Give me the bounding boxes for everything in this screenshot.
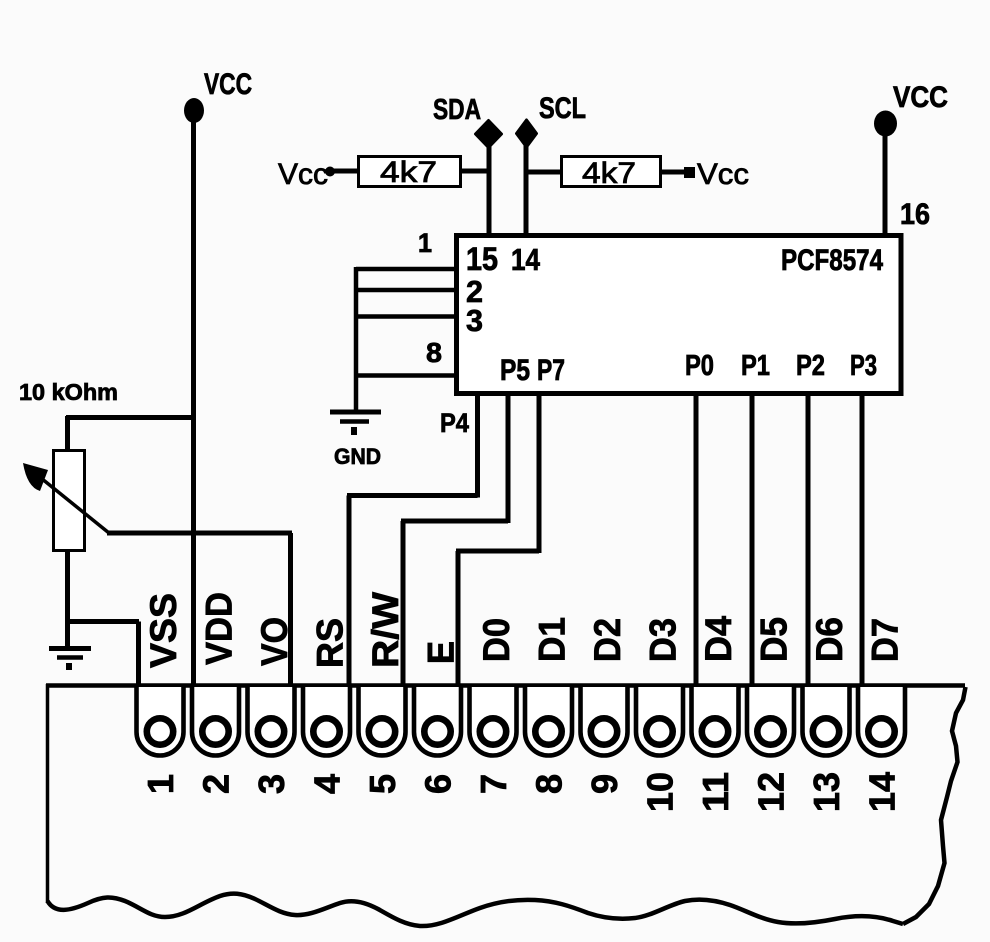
LCD module left edge <box>46 684 50 903</box>
ground GND (address pins) bar2 <box>340 419 369 424</box>
wire VCC top-left vertical down to LCD pin 2 (VDD) <box>191 120 196 686</box>
LCD pin 3 socket outline <box>248 687 295 755</box>
svg-text:1: 1 <box>140 774 181 794</box>
svg-text:VCC: VCC <box>893 81 948 114</box>
svg-text:1: 1 <box>418 228 432 258</box>
svg-text:14: 14 <box>862 772 903 812</box>
svg-text:VO: VO <box>254 617 295 666</box>
svg-text:4k7: 4k7 <box>582 157 636 190</box>
wire pin2 stub (A1) <box>356 288 456 293</box>
wire P4 horizontal to RS <box>347 493 478 498</box>
wire RS vertical down to LCD pin 4 <box>347 496 352 687</box>
svg-text:P4: P4 <box>440 408 469 438</box>
wire P5 horizontal to R/W <box>401 519 508 524</box>
LCD pin 3 hole <box>258 718 284 744</box>
svg-text:P7: P7 <box>537 354 565 387</box>
svg-text:R/W: R/W <box>365 592 406 668</box>
svg-text:PCF8574: PCF8574 <box>781 244 883 277</box>
wire pot bottom vertical to ground <box>65 550 70 648</box>
svg-text:Vcc: Vcc <box>697 158 749 191</box>
LCD pin 6 hole <box>424 718 450 744</box>
svg-text:Vcc: Vcc <box>278 158 328 191</box>
svg-text:P5: P5 <box>500 354 530 387</box>
node VCC (top right supply dot) <box>874 111 897 137</box>
svg-text:15: 15 <box>466 241 498 277</box>
potentiometer wiper arrow shaft <box>36 474 109 533</box>
wire pin8 stub (VSS) <box>356 373 456 378</box>
svg-text:5: 5 <box>362 774 403 794</box>
svg-text:D1: D1 <box>532 617 573 662</box>
LCD pin 11 socket outline <box>692 687 739 755</box>
svg-text:8: 8 <box>529 774 570 794</box>
LCD pin 1 socket outline <box>137 687 184 755</box>
svg-text:10: 10 <box>640 772 681 812</box>
LCD module torn bottom edge (wavy) <box>48 894 904 926</box>
LCD pin 12 hole <box>757 718 783 744</box>
svg-text:10 kOhm: 10 kOhm <box>19 379 118 405</box>
svg-text:VSS: VSS <box>143 593 184 668</box>
svg-text:D7: D7 <box>865 618 906 662</box>
wire P2 vertical down to LCD pin 13 (D6) <box>806 394 811 686</box>
wire wiper horizontal to VO line <box>107 531 292 536</box>
svg-text:D3: D3 <box>643 618 684 662</box>
wire pot bottom branch horizontal to LCD pin 1 <box>66 619 139 624</box>
svg-text:E: E <box>421 641 462 664</box>
svg-text:P2: P2 <box>796 350 825 382</box>
svg-text:RS: RS <box>310 618 351 668</box>
svg-text:6: 6 <box>418 774 459 794</box>
LCD pin 7 socket outline <box>470 687 517 755</box>
wire P0 vertical down to LCD pin 11 (D4) <box>694 394 699 686</box>
LCD pin 2 socket outline <box>192 687 239 755</box>
wire P7 vertical from U1 <box>537 394 542 553</box>
wire address bus vertical to ground <box>354 267 359 412</box>
wire P4 vertical from U1 <box>475 394 480 498</box>
svg-text:D2: D2 <box>587 618 628 662</box>
wire Vcc dot to resistor R1 <box>334 169 359 174</box>
svg-text:2: 2 <box>196 774 237 794</box>
wire SCL vertical down to PCF8574 pin 14 <box>524 140 529 237</box>
LCD pin 7 hole <box>480 718 506 744</box>
wire VO vertical down to LCD pin 3 <box>288 533 293 686</box>
LCD module torn right edge (jagged) <box>903 687 966 924</box>
svg-text:D5: D5 <box>754 617 795 662</box>
wire R1 to SDA line <box>460 169 489 174</box>
LCD pin 10 hole <box>646 718 672 744</box>
LCD pin 12 socket outline <box>747 687 794 755</box>
LCD pin 13 hole <box>813 718 839 744</box>
svg-text:14: 14 <box>511 242 541 277</box>
node SCL (diamond) <box>517 120 537 147</box>
svg-text:VDD: VDD <box>199 592 240 665</box>
LCD pin 2 hole <box>202 718 228 744</box>
ground (pot) bar1 <box>49 646 91 651</box>
node SDA (diamond) <box>476 121 502 148</box>
wire P3 vertical down to LCD pin 14 (D7) <box>860 394 865 686</box>
svg-text:3: 3 <box>466 303 483 338</box>
wire R2 to Vcc arrow <box>660 170 686 175</box>
LCD pin 9 hole <box>591 718 617 744</box>
svg-text:P3: P3 <box>850 350 877 382</box>
op IC U1 PCF8574 body <box>457 236 902 394</box>
svg-text:GND: GND <box>334 444 381 469</box>
wire P1 vertical down to LCD pin 12 (D5) <box>750 394 755 686</box>
svg-text:7: 7 <box>473 774 514 794</box>
wire SDA vertical down to PCF8574 pin 15 <box>487 140 492 237</box>
ground GND (address pins) bar1 <box>330 410 381 415</box>
LCD pin 10 socket outline <box>636 687 683 755</box>
ground (pot) bar2 <box>57 655 83 660</box>
ground GND (address pins) bar3 <box>351 427 357 435</box>
ground (pot) bar3 <box>66 663 72 670</box>
wire VCC top-right vertical down to PCF8574 pin 16 <box>883 133 888 237</box>
svg-text:P0: P0 <box>685 350 714 382</box>
node square terminal before Vcc (right) <box>684 167 695 178</box>
LCD pin 8 socket outline <box>525 687 572 755</box>
svg-text:8: 8 <box>426 337 442 368</box>
svg-text:D6: D6 <box>809 617 850 662</box>
LCD pin 13 socket outline <box>803 687 850 755</box>
LCD pin 14 hole <box>868 718 894 744</box>
resistor R2 4k7 pull-up (SCL) body <box>562 157 661 187</box>
node VCC (top left supply dot) <box>184 98 204 123</box>
wire pot top vertical <box>65 416 70 451</box>
svg-text:D4: D4 <box>698 616 739 662</box>
LCD pin 9 socket outline <box>581 687 628 755</box>
node dot after Vcc label <box>325 167 335 177</box>
svg-text:12: 12 <box>751 772 792 812</box>
wire pot top to VCC line <box>66 415 195 420</box>
wire P7 horizontal to E <box>456 549 539 554</box>
LCD pin 14 socket outline <box>858 687 905 755</box>
wire pin1 stub (A0) <box>356 267 456 272</box>
svg-text:P1: P1 <box>741 350 770 382</box>
svg-text:4: 4 <box>307 774 348 794</box>
svg-text:16: 16 <box>900 198 930 231</box>
wire P5 vertical from U1 <box>506 394 511 523</box>
LCD module top edge <box>46 683 965 688</box>
svg-text:D0: D0 <box>476 618 517 662</box>
resistor R1 4k7 pull-up (SDA) body <box>359 157 461 187</box>
wire SCL line to resistor R2 <box>526 170 562 175</box>
svg-text:SCL: SCL <box>539 92 586 125</box>
svg-text:4k7: 4k7 <box>380 156 437 189</box>
svg-text:3: 3 <box>251 774 292 794</box>
svg-text:VCC: VCC <box>204 68 252 101</box>
potentiometer R3 10k body <box>54 451 85 551</box>
wire E vertical down to LCD pin 6 <box>456 551 461 686</box>
svg-text:SDA: SDA <box>433 94 481 126</box>
wire R/W vertical down to LCD pin 5 <box>401 521 406 686</box>
LCD pin 8 hole <box>535 718 561 744</box>
svg-text:13: 13 <box>806 772 847 812</box>
LCD pin 6 socket outline <box>414 687 461 755</box>
LCD pin 1 hole <box>147 718 173 744</box>
wire branch vertical into pin 1 <box>136 622 141 687</box>
LCD pin 5 hole <box>369 718 395 744</box>
LCD pin 11 hole <box>702 718 728 744</box>
svg-text:11: 11 <box>695 772 736 812</box>
LCD pin 4 socket outline <box>303 687 350 755</box>
potentiometer wiper arrowhead <box>23 463 48 491</box>
svg-text:9: 9 <box>584 774 625 794</box>
LCD pin 4 hole <box>313 718 339 744</box>
wire pin3 stub (A2) <box>356 314 456 319</box>
LCD pin 5 socket outline <box>359 687 406 755</box>
